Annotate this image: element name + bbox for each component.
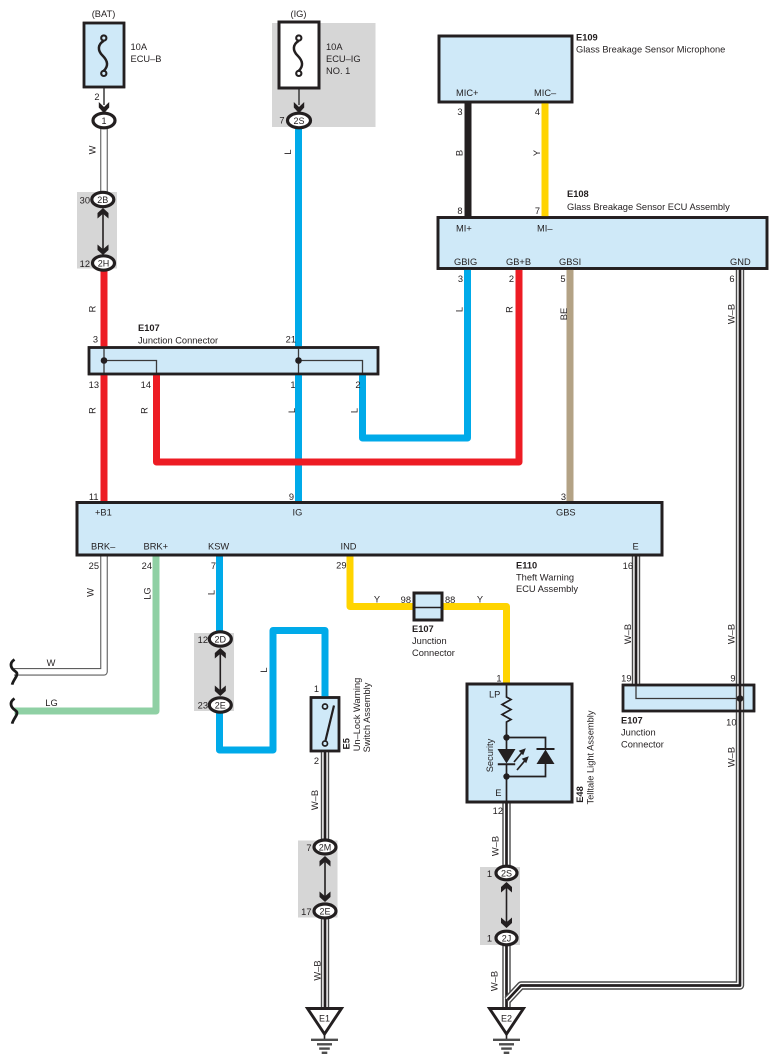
svg-text:Junction Connector: Junction Connector — [138, 336, 218, 346]
box E48 Telltale Light Assembly — [467, 684, 572, 802]
svg-text:98: 98 — [401, 595, 411, 605]
svg-text:1: 1 — [290, 380, 295, 390]
svg-text:10A: 10A — [131, 42, 148, 52]
svg-text:B: B — [454, 150, 464, 156]
svg-text:1: 1 — [314, 684, 319, 694]
svg-text:MIC–: MIC– — [534, 88, 557, 98]
E107 right internal bus from pin19 — [636, 687, 740, 699]
svg-text:16: 16 — [623, 561, 633, 571]
connector oval 2E (KSW) — [209, 698, 231, 712]
connector oval 2S (ground branch) — [496, 866, 517, 880]
box E107 junction connector (upper) — [89, 348, 378, 375]
fuse 10A ECU-B box — [84, 23, 124, 87]
fuse 10A ECU-IG NO.1 box — [279, 22, 319, 88]
arrow into connector 1 — [99, 102, 109, 113]
svg-text:W–B: W–B — [623, 624, 633, 644]
connector oval 2S (IG) — [288, 113, 311, 128]
fuse element ECU-IG — [294, 35, 302, 76]
svg-text:L: L — [287, 408, 297, 413]
svg-text:12: 12 — [80, 259, 90, 269]
svg-text:5: 5 — [560, 274, 565, 284]
wire R 2H to E107 pin3 — [101, 269, 108, 347]
svg-text:2M: 2M — [319, 843, 332, 853]
svg-text:E2: E2 — [501, 1014, 512, 1024]
svg-text:E: E — [495, 788, 501, 798]
svg-text:21: 21 — [286, 335, 296, 345]
svg-text:IND: IND — [341, 542, 357, 552]
arrow into connector 2S — [294, 102, 304, 113]
wire L E107 pin1 to E110 IG pin9 — [295, 375, 302, 503]
svg-text:9: 9 — [289, 492, 294, 502]
wire Y E110 IND to E107 small box — [350, 555, 414, 607]
svg-text:Junction: Junction — [621, 728, 656, 738]
svg-text:W: W — [87, 145, 97, 154]
svg-text:MI+: MI+ — [456, 224, 472, 234]
svg-text:E48: E48 — [575, 786, 585, 803]
gray box connector 2M/2E — [298, 841, 338, 918]
fuse element ECU-B — [99, 35, 107, 76]
E107 upper internal bus: pin3-13 wire — [103, 349, 105, 373]
svg-text:W–B: W–B — [726, 304, 736, 324]
pigtail fuse ECU-IG to arrow — [298, 88, 300, 105]
break squiggle LG wire — [11, 699, 17, 724]
resistor in E48 — [502, 684, 511, 738]
svg-text:2D: 2D — [215, 635, 227, 645]
svg-text:L: L — [349, 408, 359, 413]
svg-text:LG: LG — [142, 587, 152, 599]
svg-text:7: 7 — [211, 561, 216, 571]
svg-text:ECU–IG: ECU–IG — [326, 54, 361, 64]
svg-text:GBIG: GBIG — [454, 257, 477, 267]
E107 right junction dot — [737, 695, 744, 702]
E107 upper internal bus: pin21-1 wire — [298, 349, 300, 373]
svg-text:3: 3 — [561, 492, 566, 502]
wire W-B E108 GND pin6 down to E107 right box — [736, 269, 744, 711]
LED light arrows — [514, 748, 529, 770]
wire L E107 pin2 to E108 GBIG pin3 — [363, 268, 468, 438]
svg-text:E107: E107 — [412, 624, 434, 634]
wire W-B E107 right pin10 joining ground E2 wire — [508, 711, 741, 1000]
svg-text:W–B: W–B — [726, 747, 736, 767]
connector oval 2B — [92, 192, 114, 206]
svg-text:GND: GND — [730, 257, 751, 267]
svg-text:10: 10 — [726, 718, 736, 728]
svg-text:24: 24 — [142, 561, 152, 571]
svg-text:2E: 2E — [215, 701, 226, 711]
pigtail fuse ECU-B to arrow — [103, 87, 105, 105]
E107 upper junction dot right — [295, 357, 302, 364]
wire LG E110 BRK+ to left break — [15, 555, 157, 711]
svg-text:E109: E109 — [576, 33, 598, 43]
svg-text:Glass Breakage Sensor ECU Asse: Glass Breakage Sensor ECU Assembly — [567, 202, 730, 212]
svg-text:Junction: Junction — [412, 636, 447, 646]
svg-text:E108: E108 — [567, 189, 589, 199]
svg-text:BRK+: BRK+ — [144, 542, 169, 552]
svg-text:30: 30 — [80, 196, 90, 206]
inter-connector arrow 2B-2H — [98, 208, 109, 255]
wire W fuse ECU-B to 2B (double line) — [100, 127, 108, 193]
svg-text:L: L — [259, 667, 269, 672]
svg-text:(BAT): (BAT) — [92, 9, 116, 19]
box E110 Theft Warning ECU Assembly — [77, 503, 662, 556]
svg-text:E1: E1 — [319, 1014, 330, 1024]
svg-text:13: 13 — [89, 380, 99, 390]
svg-text:3: 3 — [458, 274, 463, 284]
connector oval 2D — [209, 632, 231, 646]
gray box connector 2D/2E — [194, 633, 234, 711]
inter-connector arrow 2D-2E — [215, 648, 226, 696]
svg-text:Security: Security — [485, 738, 495, 772]
svg-text:L: L — [206, 590, 216, 595]
wire W-B E48 pin12 to connector 2S — [502, 802, 510, 873]
svg-text:W–B: W–B — [726, 624, 736, 644]
svg-text:3: 3 — [457, 107, 462, 117]
gray box connector 2S/2J — [480, 867, 520, 945]
svg-text:E: E — [633, 542, 639, 552]
wire Y E107 small box to E48 pin1 — [442, 607, 507, 685]
svg-text:6: 6 — [729, 274, 734, 284]
wire BE E108 GBSI to E110 GBS pin3 — [567, 269, 574, 502]
ground symbol E1 — [308, 1009, 342, 1053]
wire W-B connector 2J to ground E2 — [502, 938, 510, 1008]
wire W-B E110 E pin16 to E107 right box pin19 — [632, 555, 640, 685]
E107 upper internal bus: branch to pin14 — [104, 361, 157, 374]
svg-text:E5: E5 — [341, 738, 351, 749]
svg-text:LP: LP — [489, 690, 500, 700]
svg-text:Connector: Connector — [621, 740, 664, 750]
svg-text:7: 7 — [535, 206, 540, 216]
svg-text:17: 17 — [301, 907, 311, 917]
svg-text:E107: E107 — [138, 323, 160, 333]
svg-text:10A: 10A — [326, 42, 343, 52]
svg-text:MIC+: MIC+ — [456, 88, 478, 98]
svg-text:Y: Y — [532, 150, 542, 156]
ground symbol E2 — [490, 1009, 524, 1053]
svg-text:W–B: W–B — [312, 960, 322, 980]
svg-text:W–B: W–B — [310, 790, 320, 810]
svg-text:LG: LG — [45, 698, 57, 708]
inter-connector arrow 2S-2J — [501, 882, 512, 928]
diode right branch in E48 — [507, 738, 555, 777]
LED security left branch — [498, 738, 516, 777]
E107 small internal divider — [416, 607, 441, 609]
E48 lamp wire to E pin — [506, 777, 508, 803]
wire W E110 BRK- to left break — [14, 555, 104, 672]
svg-text:L: L — [283, 149, 293, 154]
svg-text:88: 88 — [445, 595, 455, 605]
svg-text:MI–: MI– — [537, 224, 553, 234]
wire R E107 pin14 to E108 GB+B pin2 — [157, 268, 520, 462]
E107 upper junction dot left — [101, 357, 108, 364]
svg-text:Un–Lock Warning: Un–Lock Warning — [352, 678, 362, 752]
box E107 junction connector (right) — [623, 685, 754, 711]
switch contacts E5 — [323, 704, 335, 746]
wire Y E109 MIC- to E108 MI- — [542, 103, 549, 217]
svg-text:IG: IG — [293, 508, 303, 518]
svg-text:E107: E107 — [621, 716, 643, 726]
svg-text:2: 2 — [314, 756, 319, 766]
svg-text:29: 29 — [336, 561, 346, 571]
wire R E107 pin13 to E110 +B1 pin11 — [101, 375, 108, 503]
wire W-B E5 pin2 to connector 2M — [321, 751, 329, 847]
svg-text:12: 12 — [198, 635, 208, 645]
svg-text:GB+B: GB+B — [506, 257, 531, 267]
LAYER: blue component boxes — [77, 22, 767, 802]
svg-text:(IG): (IG) — [290, 9, 306, 19]
gray box connector 2B/2H — [77, 192, 117, 269]
svg-text:14: 14 — [141, 380, 151, 390]
box E109 Glass Breakage Sensor Microphone — [439, 36, 572, 102]
svg-text:25: 25 — [89, 561, 99, 571]
svg-text:Connector: Connector — [412, 648, 455, 658]
E48 node dot top — [503, 734, 509, 740]
svg-text:4: 4 — [535, 107, 540, 117]
svg-text:23: 23 — [198, 701, 208, 711]
svg-text:11: 11 — [89, 492, 99, 502]
svg-text:R: R — [504, 306, 514, 313]
connector oval 2E (ground branch) — [314, 904, 336, 918]
svg-text:1: 1 — [487, 934, 492, 944]
wire L IG fuse 2S to E107 pin21 — [295, 127, 302, 347]
gray shading around IG fuse — [272, 23, 376, 127]
box E107 junction connector (small, IND line) — [414, 593, 442, 620]
box E5 Un-Lock Warning Switch Assembly — [311, 698, 339, 752]
svg-text:Telltale Light Assembly: Telltale Light Assembly — [585, 710, 595, 804]
svg-text:7: 7 — [279, 116, 284, 126]
svg-text:GBSI: GBSI — [559, 257, 581, 267]
svg-text:W: W — [47, 658, 56, 668]
E48 node dot bottom — [503, 773, 509, 779]
svg-text:2: 2 — [94, 92, 99, 102]
connector oval 2H — [93, 256, 115, 270]
svg-text:2: 2 — [355, 380, 360, 390]
svg-text:NO. 1: NO. 1 — [326, 66, 350, 76]
svg-text:R: R — [87, 407, 97, 414]
svg-text:E110: E110 — [516, 561, 537, 571]
svg-text:R: R — [139, 407, 149, 414]
break squiggle W wire — [11, 660, 17, 685]
connector oval 2M — [314, 840, 336, 854]
svg-text:W–B: W–B — [490, 836, 500, 856]
connector oval 2J — [496, 931, 517, 945]
wire W-B connector 2E to ground E1 — [321, 911, 329, 1008]
svg-text:Theft Warning: Theft Warning — [516, 573, 574, 583]
svg-text:KSW: KSW — [208, 542, 229, 552]
svg-text:+B1: +B1 — [95, 508, 112, 518]
svg-text:W–B: W–B — [489, 971, 499, 991]
svg-text:1: 1 — [496, 674, 501, 684]
connector oval 1 — [93, 113, 115, 128]
svg-text:Glass Breakage Sensor Micropho: Glass Breakage Sensor Microphone — [576, 45, 725, 55]
svg-text:BRK–: BRK– — [91, 542, 116, 552]
svg-text:1: 1 — [487, 869, 492, 879]
LAYER: wires — [14, 103, 740, 1008]
LAYER: box borders redrawn on top of wires — [77, 22, 767, 802]
svg-text:BE: BE — [559, 308, 569, 320]
box E108 Glass Breakage Sensor ECU Assembly — [438, 218, 767, 269]
svg-text:9: 9 — [730, 674, 735, 684]
svg-text:2: 2 — [509, 274, 514, 284]
svg-text:GBS: GBS — [556, 508, 576, 518]
svg-text:Switch Assembly: Switch Assembly — [362, 682, 372, 752]
svg-text:1: 1 — [101, 116, 106, 126]
svg-text:ECU–B: ECU–B — [131, 54, 162, 64]
svg-text:7: 7 — [306, 843, 311, 853]
svg-text:2E: 2E — [319, 907, 330, 917]
svg-text:Y: Y — [477, 595, 483, 605]
svg-text:Y: Y — [374, 595, 380, 605]
E107 upper internal bus: branch to pin2 — [299, 361, 363, 374]
svg-text:2S: 2S — [501, 869, 512, 879]
svg-text:2B: 2B — [97, 195, 108, 205]
wire L E110 KSW to connector 2D — [216, 555, 223, 639]
svg-text:R: R — [87, 305, 97, 312]
svg-text:W: W — [85, 588, 95, 597]
svg-text:2H: 2H — [98, 259, 110, 269]
svg-text:2J: 2J — [502, 934, 512, 944]
wire L connector 2E to E5 pin1 — [220, 631, 326, 751]
svg-text:12: 12 — [493, 806, 503, 816]
wire B E109 MIC+ to E108 MI+ — [465, 103, 472, 217]
svg-text:L: L — [454, 307, 464, 312]
svg-text:3: 3 — [93, 335, 98, 345]
svg-text:ECU Assembly: ECU Assembly — [516, 584, 578, 594]
LAYER: gray backgrounds — [77, 23, 520, 945]
svg-text:19: 19 — [621, 674, 631, 684]
svg-text:8: 8 — [457, 206, 462, 216]
svg-text:2S: 2S — [293, 116, 304, 126]
inter-connector arrow 2M-2E — [320, 856, 331, 902]
